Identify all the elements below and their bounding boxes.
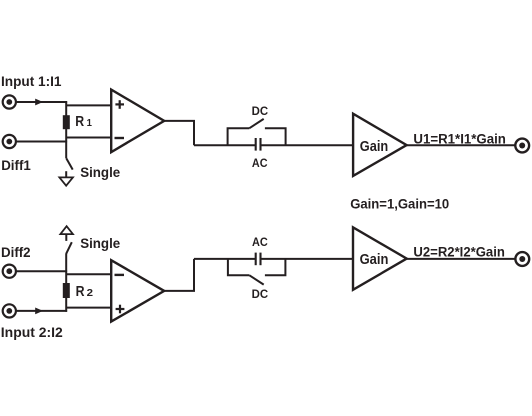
svg-text:Input 2:I2: Input 2:I2 <box>1 325 63 340</box>
svg-text:DC: DC <box>252 287 269 301</box>
svg-text:Gain=1,Gain=10: Gain=1,Gain=10 <box>350 196 449 211</box>
svg-text:1: 1 <box>87 118 93 129</box>
svg-text:Gain: Gain <box>360 139 388 155</box>
svg-text:Single: Single <box>80 236 120 251</box>
svg-text:2: 2 <box>87 288 94 299</box>
svg-text:R: R <box>76 284 85 300</box>
svg-text:AC: AC <box>252 156 268 170</box>
svg-text:DC: DC <box>252 104 269 118</box>
svg-text:Input 1:I1: Input 1:I1 <box>1 74 62 89</box>
svg-text:R: R <box>75 114 84 130</box>
svg-text:Gain: Gain <box>360 252 389 268</box>
svg-text:Diff2: Diff2 <box>1 245 31 260</box>
svg-text:AC: AC <box>252 235 268 249</box>
svg-text:Diff1: Diff1 <box>1 158 31 173</box>
svg-text:Single: Single <box>80 165 120 180</box>
svg-text:U1=R1*I1*Gain: U1=R1*I1*Gain <box>413 131 506 146</box>
svg-text:U2=R2*I2*Gain: U2=R2*I2*Gain <box>413 244 505 259</box>
